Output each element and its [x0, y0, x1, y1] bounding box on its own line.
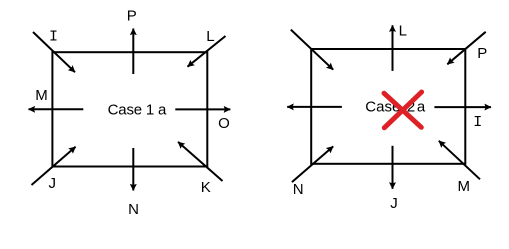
- arrow I (right middle, pointing right): [434, 106, 491, 108]
- svg-text:J: J: [48, 175, 56, 192]
- svg-text:Case 1 a: Case 1 a: [108, 102, 167, 119]
- arrow at corner P (top-right, pointing inward): [447, 32, 485, 65]
- arrow at corner N (bottom-left, pointing inward): [292, 146, 333, 182]
- svg-text:M: M: [457, 178, 470, 195]
- arrow N (bottom middle, pointing down): [132, 148, 134, 191]
- svg-text:P: P: [477, 45, 487, 62]
- arrow O (right middle, pointing right): [175, 108, 230, 110]
- svg-text:I: I: [49, 29, 58, 46]
- arrow at top-left corner of right box (pointing inward, unlabeled): [291, 30, 333, 70]
- arrow M (left middle, pointing left): [29, 108, 84, 110]
- arrow left middle of right box (pointing left, unlabeled): [287, 106, 342, 108]
- svg-text:M: M: [35, 87, 48, 104]
- arrow at corner J (bottom-left, pointing inward): [32, 147, 76, 185]
- svg-text:P: P: [127, 8, 137, 25]
- arrow at corner M (bottom-right, pointing inward): [439, 141, 480, 180]
- arrow P (top middle, pointing up): [132, 29, 134, 75]
- svg-text:I: I: [473, 114, 482, 131]
- right rectangle (Case 2 a box): [311, 49, 465, 164]
- svg-text:O: O: [218, 115, 230, 132]
- arrow J (bottom middle of right box, pointing down): [392, 146, 394, 189]
- svg-text:N: N: [128, 201, 139, 218]
- arrow L (top middle of right box, pointing up): [392, 25, 394, 71]
- svg-text:L: L: [399, 23, 407, 40]
- svg-text:N: N: [293, 181, 304, 198]
- left rectangle (Case 1 a box): [52, 52, 207, 166]
- arrow at corner K (bottom-right, pointing inward): [178, 142, 223, 181]
- svg-text:J: J: [390, 195, 398, 212]
- arrow at corner L (top-right, pointing inward): [188, 36, 226, 67]
- svg-text:K: K: [201, 179, 211, 196]
- svg-text:L: L: [206, 28, 214, 45]
- red X mark over Case 2 a: [384, 92, 422, 128]
- arrow at corner I (top-left, pointing inward): [33, 32, 75, 72]
